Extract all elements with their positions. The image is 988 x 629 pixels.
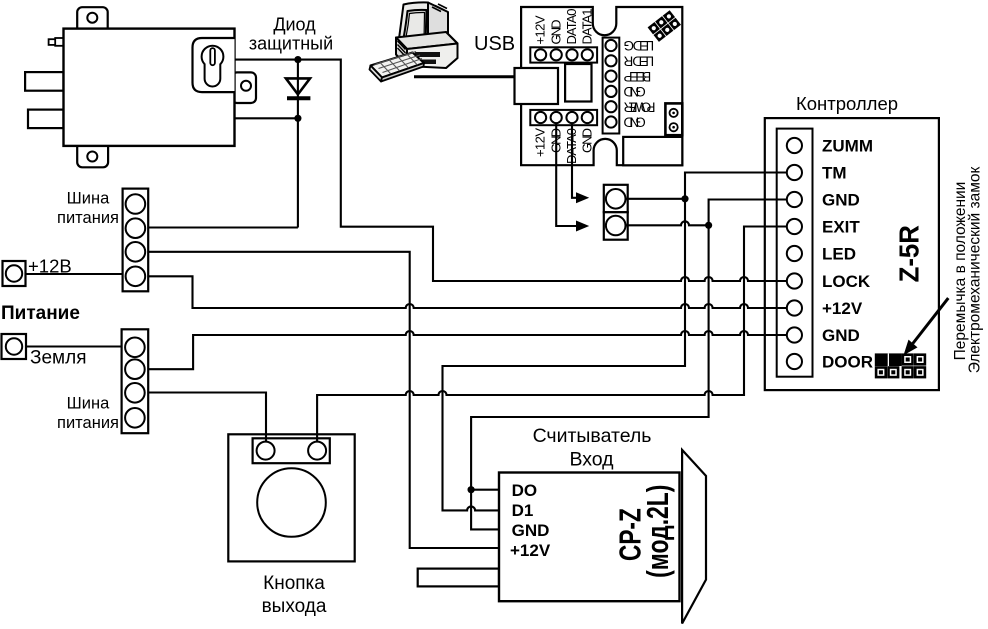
wire: adapter GND to contactor arrow <box>556 123 577 226</box>
svg-text:LED G: LED G <box>624 38 655 53</box>
label: Диод защитный <box>249 15 333 54</box>
svg-text:TM: TM <box>822 164 847 183</box>
svg-text:GND: GND <box>822 191 860 210</box>
keyboard <box>371 53 425 78</box>
svg-text:Шина: Шина <box>67 395 110 413</box>
svg-text:Диод: Диод <box>273 15 316 35</box>
monitor screen <box>404 10 427 44</box>
case front <box>396 38 407 67</box>
svg-text:POWER: POWER <box>623 99 655 114</box>
svg-text:+12V: +12V <box>822 299 863 318</box>
adapter bottom-right component <box>623 137 682 165</box>
adapter chip <box>565 64 591 102</box>
label: Шина питания (lower) <box>57 395 119 433</box>
wire: diode vertical to power bus c2 <box>148 60 298 228</box>
adapter 2x3 jumper header (rotated) <box>648 10 681 42</box>
adapter 2-pin block <box>665 103 682 135</box>
wire: lock bottom to diode <box>235 117 298 119</box>
USB plug on adapter <box>515 68 559 104</box>
adapter bottom pin labels: +12V GND DATA0 GND <box>533 128 595 164</box>
svg-text:Кнопка: Кнопка <box>263 573 325 594</box>
lock left bolt 2 <box>28 110 64 129</box>
wire: c4 to +12V bus to +12V terminal <box>148 276 787 308</box>
wire: DO branch <box>471 489 499 491</box>
label: Перемычка в положении Электромеханический замок (rotated) <box>952 166 983 373</box>
monitor vents <box>432 4 447 12</box>
lock top mounting tab <box>77 7 108 35</box>
lock top tab hole <box>87 13 97 23</box>
svg-text:GND: GND <box>548 20 563 45</box>
controller Z-5R box <box>765 118 939 390</box>
svg-text:Вход: Вход <box>569 449 614 471</box>
lock right tab <box>232 72 256 103</box>
USB cable wire <box>414 75 521 78</box>
keyboard keys <box>375 52 423 74</box>
case dark slots <box>415 52 440 57</box>
case top <box>396 32 458 49</box>
svg-text:LED: LED <box>822 245 856 264</box>
USB adapter board outline <box>521 7 682 165</box>
lock bottom tab hole <box>87 152 97 162</box>
svg-text:ZUMM: ZUMM <box>822 137 873 156</box>
svg-text:+12V: +12V <box>533 128 548 157</box>
svg-text:DATA1: DATA1 <box>579 9 594 45</box>
svg-text:DO: DO <box>512 481 537 500</box>
adapter top connector X1 <box>530 47 597 62</box>
monitor front <box>399 2 429 48</box>
reader CP-Z box <box>499 473 680 602</box>
label: CP-Z (мод.2L) rotated <box>612 485 675 578</box>
svg-text:Шина: Шина <box>67 190 110 208</box>
svg-text:питания: питания <box>57 414 119 432</box>
svg-text:GND: GND <box>512 521 550 540</box>
lock cylinder plate <box>193 38 235 92</box>
label: Шина питания (upper) <box>57 190 119 228</box>
reader cable tail <box>418 569 499 587</box>
controller terminal labels <box>822 137 873 372</box>
wire: TM terminal to contactor and reader D1 <box>443 173 787 511</box>
wire: lock top to LOCK terminal <box>235 60 787 281</box>
svg-text:USB: USB <box>474 33 515 55</box>
svg-text:DATA0: DATA0 <box>564 9 579 45</box>
wire: +12V input to bus block <box>26 273 123 275</box>
jumper cap on left 2 pins <box>875 353 902 366</box>
electromechanical lock body group <box>25 7 256 167</box>
wire: exit button right to EXIT terminal <box>317 227 787 442</box>
case vent grid <box>398 41 406 57</box>
lock keyhole tail <box>205 64 221 87</box>
reader pin labels <box>510 481 551 560</box>
lock key circle <box>202 46 224 68</box>
label: Считыватель Вход <box>533 425 652 471</box>
wire: GND terminal to contactor bottom and reader DO/GND <box>471 200 787 530</box>
svg-text:GND: GND <box>623 84 645 99</box>
adapter top pin labels: +12V GND DATA0 DATA1 <box>533 9 595 45</box>
svg-text:Контроллер: Контроллер <box>796 93 898 114</box>
arrowhead to contactor top <box>576 192 589 203</box>
case right side <box>446 32 458 68</box>
wire: contactor top circle to TM node <box>626 198 686 200</box>
controller terminal strip <box>777 129 813 377</box>
lower power bus block <box>122 329 149 433</box>
svg-text:питания: питания <box>57 209 119 227</box>
label: Кнопка выхода <box>262 573 327 617</box>
svg-text:LED R: LED R <box>623 54 654 69</box>
wire: upper c3 to reader +12V <box>148 252 499 548</box>
svg-text:GND: GND <box>623 115 645 130</box>
upper power bus block <box>123 189 149 292</box>
svg-text:DOOR: DOOR <box>822 353 873 372</box>
svg-text:выхода: выхода <box>262 596 327 617</box>
lock small stub <box>49 39 57 45</box>
lock left bolt 1 <box>25 72 63 91</box>
adapter right pin labels (upside down): LED G LED R BEEP GND POWER GND <box>623 38 655 130</box>
lock right tab hole <box>241 81 251 91</box>
lock main body <box>64 29 235 146</box>
svg-text:+12V: +12V <box>510 541 551 560</box>
svg-text:(мод.2L): (мод.2L) <box>640 485 675 578</box>
computer icon (PC with monitor and keyboard) <box>370 2 458 81</box>
svg-text:GND: GND <box>822 326 860 345</box>
+12V input terminal <box>3 261 26 286</box>
wire: ground input to lower block <box>26 345 122 347</box>
lock bottom mounting tab <box>77 140 108 167</box>
svg-text:Земля: Земля <box>30 348 86 369</box>
ground input terminal <box>2 334 27 359</box>
jumper arrow <box>904 298 949 355</box>
controller terminals <box>787 138 802 369</box>
svg-text:D1: D1 <box>512 501 534 520</box>
svg-text:+12V: +12V <box>533 15 548 44</box>
protective diode VD <box>286 78 311 98</box>
svg-text:EXIT: EXIT <box>822 218 860 237</box>
svg-text:LOCK: LOCK <box>822 272 871 291</box>
monitor back/side <box>428 3 448 49</box>
wire: lower c2 to GND bus to GND terminal <box>148 331 787 369</box>
reader flange <box>682 450 706 624</box>
lock key slot <box>210 48 215 65</box>
svg-text:GND: GND <box>579 128 594 153</box>
arrowhead to contactor bottom <box>576 221 589 232</box>
svg-text:защитный: защитный <box>249 34 333 54</box>
svg-text:Питание: Питание <box>1 303 80 324</box>
svg-text:Z-5R: Z-5R <box>894 225 925 282</box>
wire: lower c3 to exit button left <box>148 393 266 442</box>
adapter right connector X3 <box>603 38 620 134</box>
svg-text:Электромеханический замок: Электромеханический замок <box>966 166 983 373</box>
wire: adapter DATA0 to contactor arrow <box>572 123 578 198</box>
TM contactor block <box>604 185 628 240</box>
DOOR jumper header 2x4 <box>875 353 926 378</box>
exit button box <box>228 434 354 561</box>
svg-text:Считыватель: Считыватель <box>533 425 652 447</box>
svg-text:BEEP: BEEP <box>624 69 652 84</box>
adapter bottom connector X2 <box>530 110 597 125</box>
